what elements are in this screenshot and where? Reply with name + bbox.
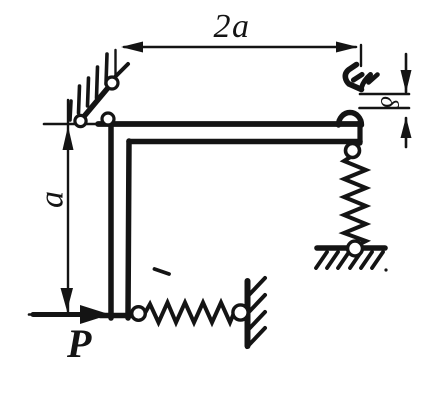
wire: bottom reference line	[29, 313, 114, 316]
support: upper-right hatched stop, C-stroke	[345, 65, 361, 90]
support: upper-right hatched stop, wing stroke 1	[362, 75, 371, 88]
wire: horizontal bar bottom edge	[129, 139, 360, 145]
dimension a: vertical dimension line	[67, 100, 69, 312]
pin C: pin at top of diagonal link	[106, 77, 118, 89]
dimension a: top arrowhead (up)	[63, 126, 74, 150]
wire: vertical bar left edge	[108, 122, 114, 318]
hatch: top-left support hatching stroke 4	[97, 67, 98, 98]
pin B: pin at top of vertical bar	[102, 113, 114, 125]
svg-text:a: a	[34, 191, 71, 208]
pin A: hinge pin left (on reference line)	[75, 115, 86, 126]
dimension 2a: right arrowhead	[336, 42, 358, 53]
wire: thin reference line top-left through pins	[44, 123, 104, 126]
svg-text:δ: δ	[375, 96, 402, 108]
dimension a: bottom arrowhead (down)	[61, 288, 74, 311]
hatch: bottom wall hatching stroke 3	[247, 312, 265, 331]
support: upper-right hatched stop, middle prong	[354, 75, 363, 81]
dimension delta: lower arrowhead (up)	[401, 117, 412, 138]
hatch: ground hatching stroke 4	[350, 252, 361, 268]
hatch: bottom wall hatching stroke 2	[247, 295, 265, 314]
ground: line under right spring	[317, 245, 385, 251]
dimension delta: lower dimension line	[405, 118, 408, 147]
hatch: ground hatching stroke 1	[316, 252, 327, 268]
wire: line from arrow tip to bottom pin	[100, 313, 135, 318]
dimension 2a: left arrowhead	[121, 42, 143, 53]
hatch: bottom wall hatching stroke 4	[247, 328, 265, 347]
dimension 2a: dimension line	[124, 46, 356, 48]
hatch: ground hatching stroke 5	[361, 252, 372, 268]
wire: bar right end cap	[357, 122, 362, 143]
wire: horizontal bar top edge	[98, 121, 361, 127]
hatch: top-left support hatching stroke 3	[88, 78, 89, 106]
hatch: ground hatching stroke 2	[327, 252, 338, 268]
hatch: top-left support hatching stroke 1	[70, 101, 71, 120]
gap: lower gap line	[360, 107, 410, 110]
pin E: pin at right spring bottom on ground	[348, 241, 363, 256]
spring: bottom horizontal spring zigzag	[145, 303, 236, 323]
stray mark: small dash above bottom spring	[155, 269, 170, 274]
spring: right vertical spring zigzag	[344, 156, 366, 246]
support: upper-right hatched stop, wing stroke 2	[369, 75, 378, 83]
pin F: pin at bottom of vertical bar (spring left end)	[132, 307, 146, 321]
dimension delta: upper arrowhead (down)	[401, 70, 412, 93]
knob: rounded end on top of bar right end	[339, 113, 362, 126]
wall: bottom-right vertical wall line	[245, 281, 251, 346]
hatch: ground hatching stroke 3	[338, 252, 349, 268]
hatch: ground hatching stroke 6	[372, 252, 383, 268]
hatch: top-left support hatching stroke 2	[79, 86, 80, 113]
stray mark: dot right of ground hatching	[384, 268, 387, 271]
svg-text:2a: 2a	[214, 8, 251, 45]
svg-text:P: P	[66, 321, 92, 366]
hatch: top-left support hatching stroke 5	[106, 54, 107, 84]
dimension delta: upper dimension line	[405, 54, 408, 92]
hatch: bottom wall hatching stroke 1	[247, 278, 265, 297]
pin D: pin under bar right end (spring top)	[346, 144, 360, 158]
dimension 2a: right extension line	[360, 45, 362, 66]
wire: vertical bar right edge	[128, 141, 129, 318]
force P: arrowhead	[80, 305, 110, 324]
gap: upper gap line	[360, 93, 409, 96]
force P: arrow shaft	[33, 312, 86, 317]
pin G: pin at bottom spring right end on wall	[233, 305, 248, 320]
link: diagonal bar of top-left pinned support	[81, 83, 112, 120]
hatch: tilted stroke right of pin C	[115, 64, 128, 77]
dimension 2a: left extension line	[114, 50, 116, 77]
